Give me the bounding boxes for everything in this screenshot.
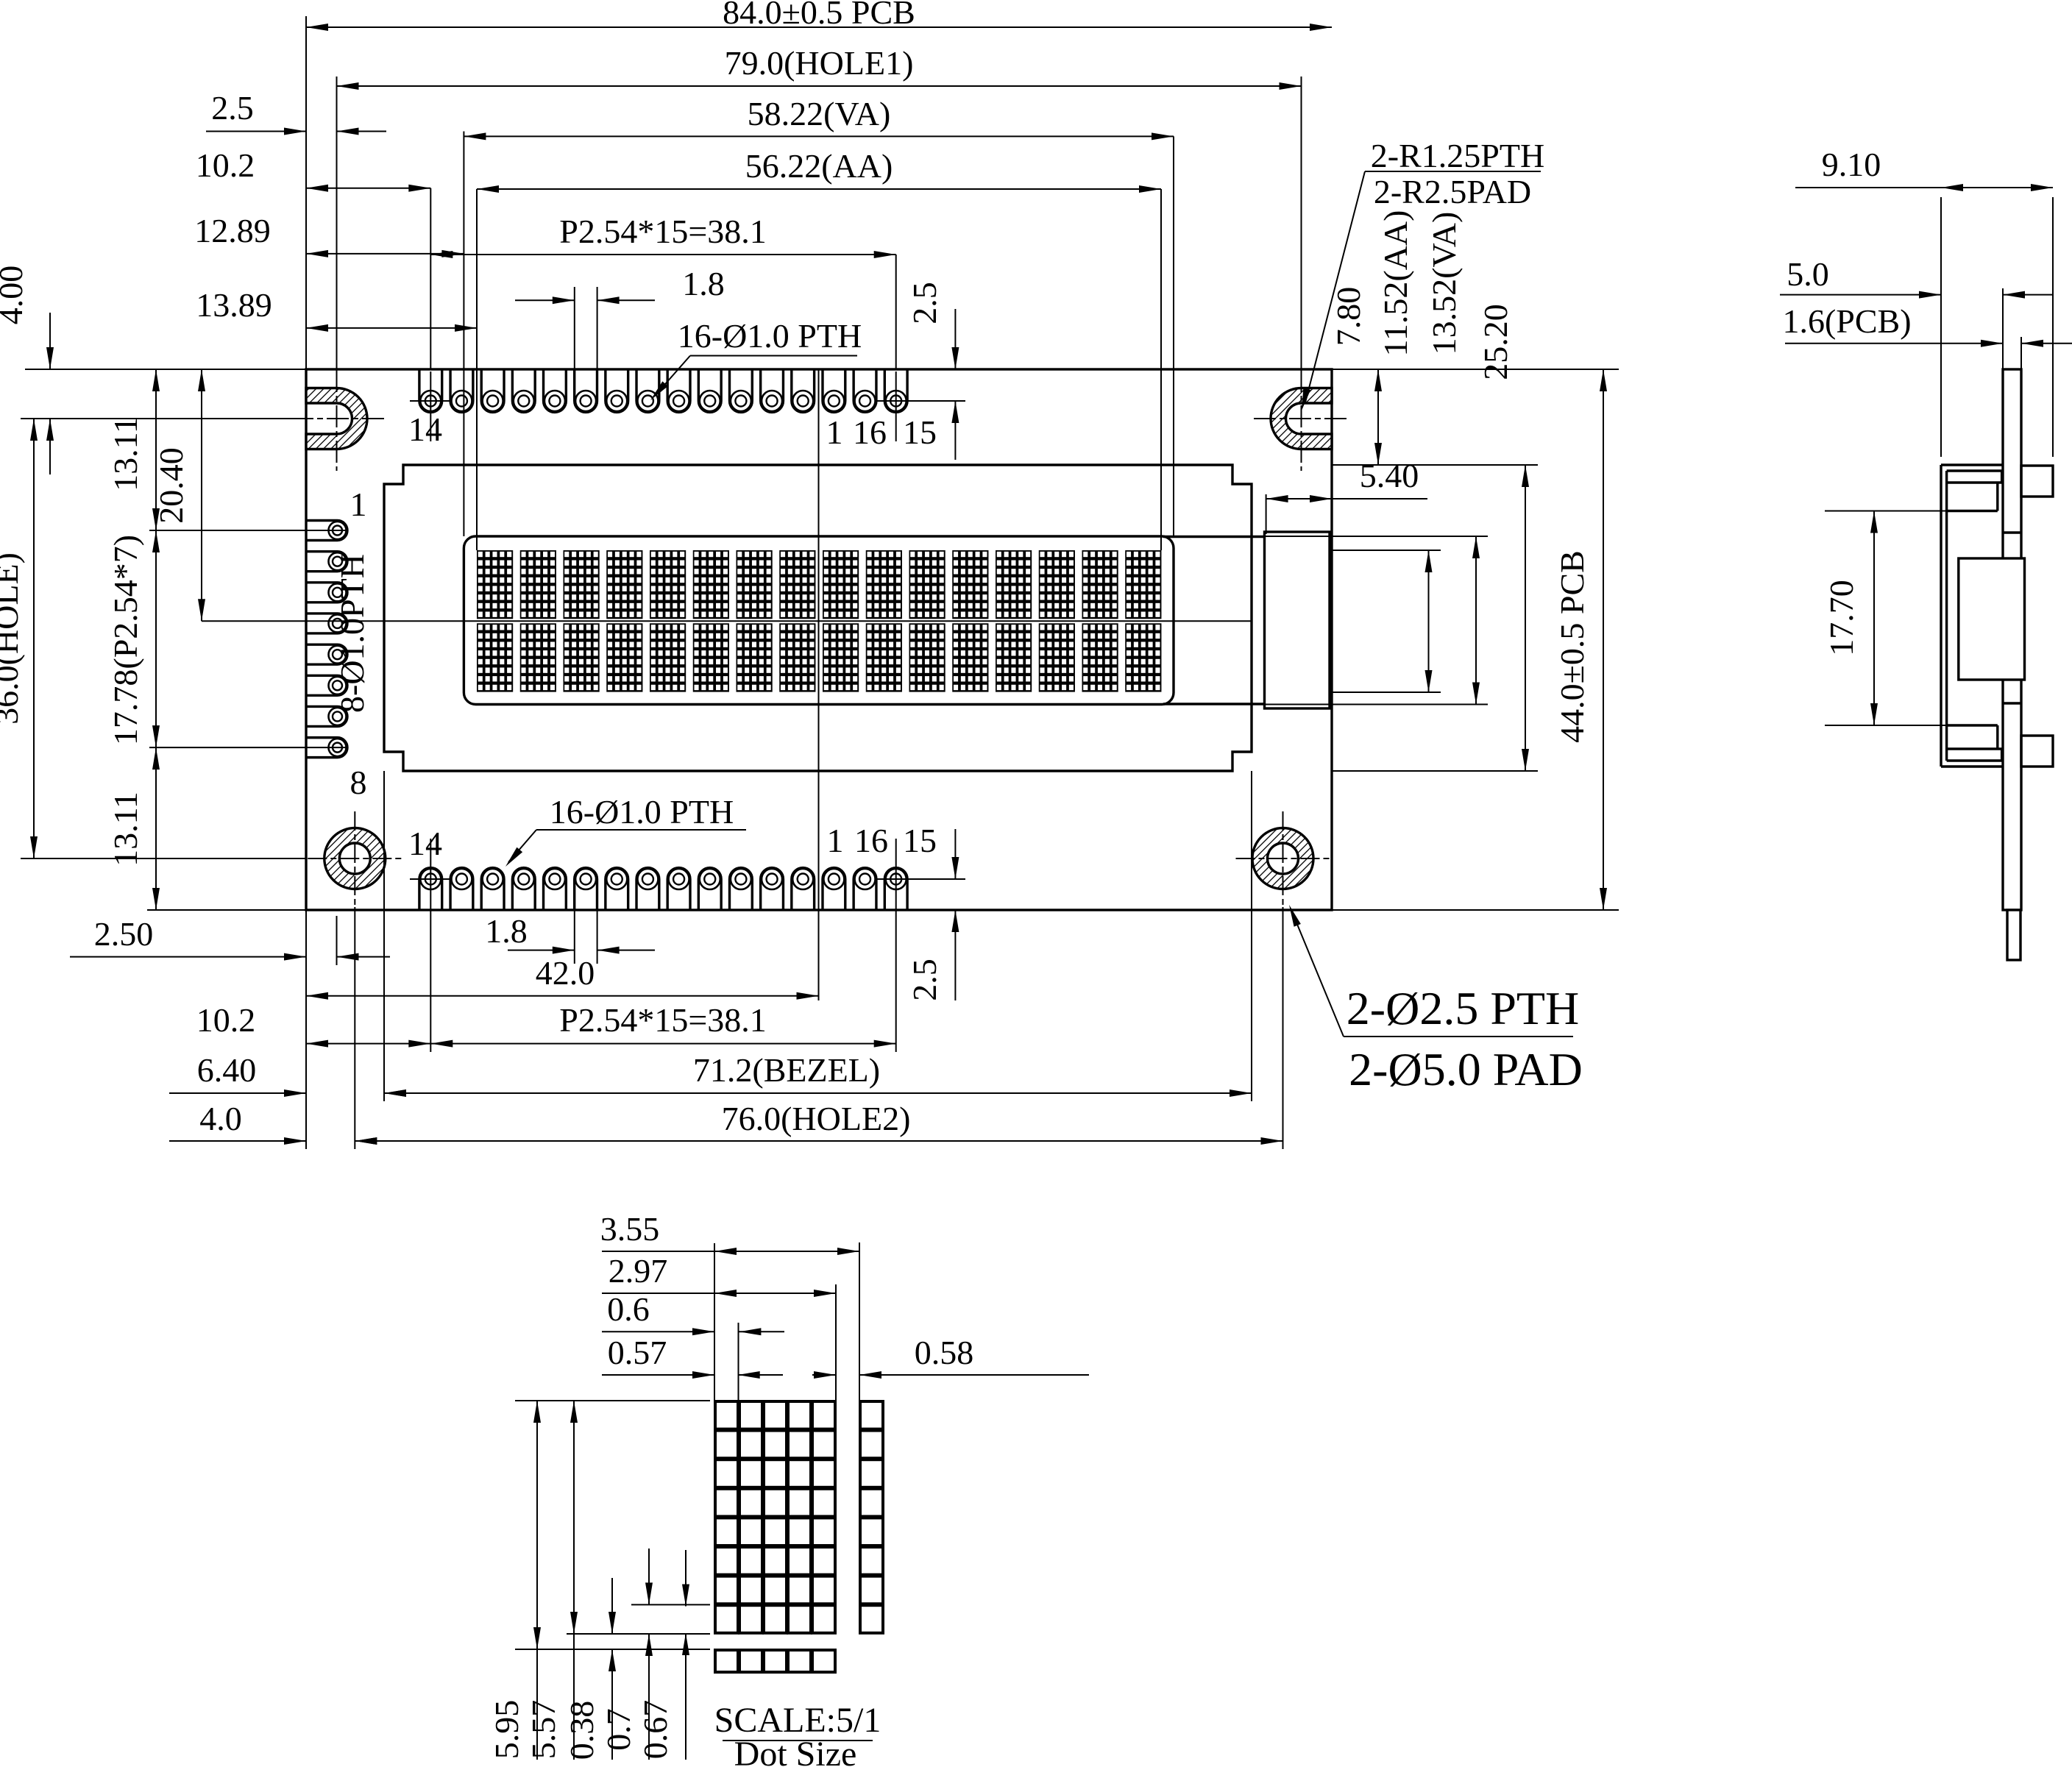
- ext pin15 row right bottom: [876, 878, 965, 880]
- dimension 1.8 top: [515, 299, 575, 301]
- svg-text:14: 14: [408, 410, 442, 448]
- dimension 0.38 detail: [611, 1578, 613, 1634]
- svg-text:13.11: 13.11: [107, 416, 144, 491]
- dimension 11.52 AA right: [1428, 550, 1430, 692]
- top pad pin 3: [730, 369, 753, 412]
- ext left pin8 row: [149, 747, 347, 748]
- side bezel tab bottom: [2021, 736, 2053, 767]
- dimension 58.22 VA: [464, 135, 1174, 137]
- ext hole2 center row left: [21, 858, 306, 859]
- LCD character cell row2 col7: [737, 623, 773, 691]
- svg-text:15: 15: [903, 822, 937, 859]
- svg-text:15: 15: [903, 413, 937, 451]
- dimension 84.0+-0.5 PCB: [306, 26, 1332, 28]
- detail dot r3 separated col: [860, 1460, 883, 1487]
- ext pin14 crosshair top: [430, 371, 431, 441]
- detail ext main right: [835, 1284, 837, 1401]
- dimension 2.5 vertical top right: [954, 309, 956, 369]
- LCD character cell row2 col12: [952, 623, 988, 691]
- mounting hole HOLE1 right (R2.5 pad half): [1271, 388, 1332, 449]
- mounting hole HOLE2 left (O5.0 pad) crosshair: [308, 858, 402, 859]
- bottom pad pin 12: [450, 868, 473, 910]
- svg-text:12.89: 12.89: [194, 212, 271, 249]
- detail dot r3c3: [764, 1460, 787, 1487]
- ext PCB top left: [25, 369, 306, 370]
- bottom pad pin 4: [698, 868, 721, 910]
- LCD character cell row2 col8: [779, 623, 815, 691]
- dimension P2.54*15=38.1 bottom: [430, 1043, 895, 1045]
- dimension 6.40 bottom: [169, 1092, 306, 1094]
- detail dot r5 separated col: [860, 1518, 883, 1546]
- svg-text:0.58: 0.58: [915, 1334, 974, 1371]
- svg-text:0.6: 0.6: [607, 1290, 650, 1328]
- top pad pin 9: [544, 369, 567, 412]
- dimension 4.00 left: [49, 313, 51, 369]
- pin14 bottom crosshair: [410, 878, 452, 880]
- detail dot r8c5: [812, 1605, 835, 1633]
- ext pad pin9 right edge bottom: [597, 910, 598, 964]
- side PCB slot top edge: [2003, 531, 2021, 533]
- detail dot r6c2: [739, 1547, 762, 1575]
- detail dot r1c3: [764, 1401, 787, 1429]
- detail dot r6c5: [812, 1547, 835, 1575]
- left pad pin 8: [306, 738, 347, 758]
- detail dot r1c1: [715, 1401, 738, 1429]
- svg-text:14: 14: [408, 825, 442, 862]
- LCD character cell row2 col6: [693, 623, 729, 691]
- svg-text:17.70: 17.70: [1823, 580, 1860, 656]
- detail dot r7c4: [788, 1576, 811, 1604]
- bottom pad pin 5: [667, 868, 690, 910]
- dimension 5.40 wing: [1266, 498, 1332, 499]
- detail dot r7c3: [764, 1576, 787, 1604]
- side view ext overall back: [2052, 197, 2054, 457]
- detail dot r8c2: [739, 1605, 762, 1633]
- detail dot r7c2: [739, 1576, 762, 1604]
- mounting hole HOLE2 left (O5.0 pad): [324, 828, 386, 889]
- side view ext bezel front: [1940, 197, 1942, 457]
- LCD character cell row2 col14: [1039, 623, 1075, 691]
- dimension 13.11 lower left: [155, 747, 157, 910]
- detail dot r7c5: [812, 1576, 835, 1604]
- dimension 13.52 VA right: [1475, 536, 1477, 705]
- detail dot r5c3: [764, 1518, 787, 1546]
- dimension 0.58 detail: [812, 1374, 836, 1376]
- ext pin14 bottom: [430, 839, 431, 1052]
- display centerline horizontal: [202, 620, 1252, 622]
- detail dot separated row c1: [715, 1650, 738, 1672]
- detail dot r8c4: [788, 1605, 811, 1633]
- detail dot r3c4: [788, 1460, 811, 1487]
- dimension 13.89: [306, 327, 477, 329]
- left pad pin 2: [306, 552, 347, 572]
- detail dot r1c4: [788, 1401, 811, 1429]
- dimension 5.57 detail: [573, 1401, 575, 1634]
- detail dot r2c3: [764, 1431, 787, 1459]
- dimension P2.54*15=38.1 top: [430, 254, 895, 255]
- detail dot r4c5: [812, 1489, 835, 1517]
- mounting hole HOLE2 right (O5.0 pad) crosshair: [1236, 858, 1330, 859]
- svg-text:2.5: 2.5: [211, 89, 254, 127]
- svg-text:71.2(BEZEL): 71.2(BEZEL): [693, 1051, 880, 1089]
- side bezel hook top: [2001, 471, 2003, 483]
- svg-text:2.5: 2.5: [906, 959, 943, 1001]
- svg-text:1: 1: [826, 413, 843, 451]
- dimension 7.80 right: [1377, 369, 1379, 465]
- dimension 4.0 bottom: [169, 1140, 306, 1142]
- detail dot r1c5: [812, 1401, 835, 1429]
- detail dot r8c1: [715, 1605, 738, 1633]
- svg-text:0.38: 0.38: [563, 1701, 600, 1760]
- dimension 0.6 detail: [602, 1331, 714, 1332]
- LCD character cell row2 col5: [650, 623, 686, 691]
- PCB outline front view: [306, 369, 1332, 910]
- detail dot r4c3: [764, 1489, 787, 1517]
- bottom pad pin 6: [636, 868, 659, 910]
- side bezel tab top: [2021, 466, 2053, 497]
- top pad pin 1: [823, 369, 845, 412]
- ext bezel right edge: [1251, 771, 1252, 1101]
- detail dot r4c1: [715, 1489, 738, 1517]
- svg-text:3.55: 3.55: [600, 1210, 660, 1248]
- bottom pad pin 14: [419, 868, 442, 910]
- detail dot separated row c3: [764, 1650, 787, 1672]
- LCD character cell row1 col16: [1125, 550, 1161, 619]
- svg-text:79.0(HOLE1): 79.0(HOLE1): [725, 44, 914, 82]
- detail dot r2 separated col: [860, 1431, 883, 1459]
- svg-text:16-Ø1.0 PTH: 16-Ø1.0 PTH: [678, 317, 862, 355]
- detail dot r3c5: [812, 1460, 835, 1487]
- dimension 20.40 left: [201, 369, 202, 621]
- ext PCB left edge above: [305, 16, 307, 369]
- svg-text:20.40: 20.40: [152, 447, 190, 524]
- detail dot r2c2: [739, 1431, 762, 1459]
- LCD character cell row1 col6: [693, 550, 729, 619]
- ext hole1 right center x: [1301, 77, 1302, 369]
- detail ext sep col left: [859, 1242, 860, 1401]
- ext pin15 top: [895, 255, 897, 369]
- LCD character cell row1 col14: [1039, 550, 1075, 619]
- ext PCB left edge below: [305, 910, 307, 1149]
- HOLE1 right crosshair: [1254, 418, 1347, 419]
- dimension 56.22 AA: [477, 188, 1161, 190]
- detail dot r6 separated col: [860, 1547, 883, 1575]
- LCD character cell row2 col1: [477, 623, 513, 691]
- svg-text:5.0: 5.0: [1787, 255, 1829, 293]
- bottom pad pin 16: [854, 868, 876, 910]
- LCD character cell row1 col9: [823, 550, 859, 619]
- svg-text:1.8: 1.8: [682, 265, 725, 302]
- bottom pad pin 8: [575, 868, 597, 910]
- dimension 10.2 top: [306, 188, 430, 189]
- svg-text:36.0(HOLE): 36.0(HOLE): [0, 552, 25, 725]
- top pad pin 2: [761, 369, 784, 412]
- ext pin15 row right top: [876, 400, 965, 402]
- ext pad pin9 left edge top: [574, 287, 575, 369]
- detail dot r3c1: [715, 1460, 738, 1487]
- bottom pad pin 1: [823, 868, 845, 910]
- svg-text:7.80: 7.80: [1330, 287, 1367, 346]
- LCD character cell row1 col1: [477, 550, 513, 619]
- LCD character cell row2 col15: [1082, 623, 1118, 691]
- side ext 17.70 top: [1825, 511, 1947, 512]
- svg-text:16: 16: [853, 413, 887, 451]
- dimension 9.10 side: [1941, 187, 2053, 188]
- LCD character cell row1 col10: [866, 550, 902, 619]
- detail dot r5c1: [715, 1518, 738, 1546]
- bottom pad pin 10: [512, 868, 535, 910]
- dimension 44.0+-0.5 PCB right: [1603, 369, 1604, 910]
- svg-text:5.95: 5.95: [488, 1700, 525, 1760]
- detail dot r5c5: [812, 1518, 835, 1546]
- dimension 5.0 side: [1780, 294, 1941, 296]
- top pad pin 12: [450, 369, 473, 412]
- detail dot r6c4: [788, 1547, 811, 1575]
- svg-text:58.22(VA): 58.22(VA): [748, 95, 891, 132]
- side PCB board bar: [2003, 369, 2021, 910]
- dimension 13.11 upper left: [155, 369, 157, 530]
- svg-text:1.6(PCB): 1.6(PCB): [1782, 302, 1911, 340]
- detail ext grid bottom: [567, 1633, 710, 1635]
- backlight boundary bottom: [1163, 703, 1265, 705]
- detail dot r8 separated col: [860, 1605, 883, 1633]
- svg-text:13.11: 13.11: [107, 792, 144, 867]
- detail dot r6c1: [715, 1547, 738, 1575]
- left pad pin 7: [306, 706, 347, 726]
- detail dot r2c4: [788, 1431, 811, 1459]
- detail ext main left: [714, 1243, 715, 1401]
- mounting hole HOLE1 left (R2.5 pad half): [306, 388, 367, 449]
- top pad pin 8: [575, 369, 597, 412]
- top pad pin 6: [636, 369, 659, 412]
- left pad pin 6: [306, 675, 347, 695]
- ext AA right: [1160, 189, 1162, 550]
- detail dot r7c1: [715, 1576, 738, 1604]
- svg-text:25.20: 25.20: [1477, 304, 1514, 380]
- side bezel inner top: [1947, 469, 2002, 472]
- detail dot r5c4: [788, 1518, 811, 1546]
- ext hole2 left center x: [354, 907, 355, 1149]
- dimension 3.55 detail: [714, 1251, 859, 1252]
- LCD character cell row2 col16: [1125, 623, 1161, 691]
- svg-text:17.78(P2.54*7): 17.78(P2.54*7): [107, 535, 144, 745]
- dimension 2.5 vertical bottom right: [954, 829, 956, 879]
- top pad pin 4: [698, 369, 721, 412]
- bottom pad pin 11: [481, 868, 504, 910]
- side view ext PCB back: [2020, 337, 2022, 369]
- ext hole1 center row left: [21, 418, 293, 419]
- svg-text:2-Ø5.0 PAD: 2-Ø5.0 PAD: [1349, 1043, 1583, 1095]
- detail ext first dot right: [738, 1323, 739, 1401]
- detail dot separated row c2: [739, 1650, 762, 1672]
- ext VA bottom right: [1265, 704, 1489, 705]
- top pad pin 14: [419, 369, 442, 412]
- detail ext row8 top: [631, 1604, 710, 1605]
- detail dot r2c1: [715, 1431, 738, 1459]
- dimension 2.97 detail: [714, 1293, 836, 1294]
- svg-text:2-Ø2.5 PTH: 2-Ø2.5 PTH: [1347, 982, 1579, 1034]
- left pad pin 3: [306, 583, 347, 602]
- ext hole1 left center x: [336, 77, 338, 369]
- svg-text:13.52(VA): 13.52(VA): [1425, 212, 1463, 355]
- LCD character cell row1 col12: [952, 550, 988, 619]
- top pad pin 5: [667, 369, 690, 412]
- svg-text:1: 1: [350, 486, 367, 523]
- dimension 79.0 HOLE1: [337, 85, 1302, 87]
- bottom pad pin 2: [761, 868, 784, 910]
- ext pad pin9 left edge bottom: [574, 910, 575, 964]
- LCD character cell row2 col4: [606, 623, 642, 691]
- svg-text:2.50: 2.50: [94, 915, 154, 953]
- detail dot r6c3: [764, 1547, 787, 1575]
- dimension 5.95 detail: [536, 1401, 538, 1649]
- svg-text:4.00: 4.00: [0, 266, 29, 325]
- top pad pin 16: [854, 369, 876, 412]
- svg-text:44.0±0.5 PCB: 44.0±0.5 PCB: [1553, 550, 1591, 743]
- LCD character cell row1 col11: [909, 550, 945, 619]
- svg-text:16: 16: [854, 822, 888, 859]
- svg-text:5.57: 5.57: [525, 1700, 562, 1760]
- ext wing left for 5.40: [1266, 494, 1267, 534]
- dimension 36.0 HOLE left: [33, 419, 35, 858]
- display centerline vertical: [818, 369, 820, 1000]
- top pad pin 10: [512, 369, 535, 412]
- svg-text:P2.54*15=38.1: P2.54*15=38.1: [559, 1001, 767, 1039]
- side view ext PCB front: [2002, 288, 2004, 369]
- dimension 76.0 HOLE2 bottom: [355, 1140, 1282, 1142]
- detail dot r3c2: [739, 1460, 762, 1487]
- ext PCB bottom right: [1332, 909, 1619, 911]
- side bezel top: [1941, 463, 2003, 466]
- detail dot r4 separated col: [860, 1489, 883, 1517]
- LCD character cell row1 col5: [650, 550, 686, 619]
- side bottom pin: [2007, 910, 2020, 960]
- detail dot r5c2: [739, 1518, 762, 1546]
- detail dot r1c2: [739, 1401, 762, 1429]
- detail dot r4c4: [788, 1489, 811, 1517]
- svg-text:Dot Size: Dot Size: [734, 1735, 857, 1767]
- dimension 17.70 side: [1873, 511, 1875, 726]
- bottom pad pin 3: [730, 868, 753, 910]
- LCD character cell row1 col15: [1082, 550, 1118, 619]
- pin15 top crosshair: [876, 400, 965, 402]
- svg-text:9.10: 9.10: [1822, 146, 1881, 183]
- svg-text:2-R2.5PAD: 2-R2.5PAD: [1374, 173, 1531, 210]
- ext pin14 top: [430, 188, 431, 369]
- ext hole1 left center x bottom: [336, 916, 338, 965]
- bezel outline: [384, 465, 1252, 771]
- top pad pin 11: [481, 369, 504, 412]
- ext PCB bottom left: [147, 909, 306, 911]
- ext left pin1 row: [149, 530, 347, 531]
- ext VA top right: [1265, 536, 1489, 537]
- side LCD glass block: [1959, 558, 2025, 680]
- ext pin15 crosshair top: [895, 371, 897, 441]
- bottom pad pin 15: [884, 868, 907, 910]
- detail dot r1 separated col: [860, 1401, 883, 1429]
- svg-text:0.7: 0.7: [600, 1708, 637, 1751]
- dimension 0.7 detail: [648, 1549, 650, 1604]
- dimension 0.57 detail: [602, 1374, 714, 1376]
- svg-text:1.8: 1.8: [485, 912, 528, 950]
- ext pad pin9 right edge top: [597, 287, 598, 369]
- LCD character cell row2 col13: [996, 623, 1032, 691]
- LCD character cell row2 col3: [564, 623, 600, 691]
- ext bezel left edge: [383, 771, 385, 1101]
- bottom pad pin 9: [544, 868, 567, 910]
- top pad pin 15: [884, 369, 907, 412]
- left pad pin 4: [306, 614, 347, 633]
- detail ext sep row top: [515, 1649, 710, 1650]
- svg-text:42.0: 42.0: [536, 954, 595, 992]
- detail dot r4c2: [739, 1489, 762, 1517]
- ext VA right: [1173, 136, 1174, 536]
- dimension 12.89: [306, 253, 464, 255]
- dimension 2.5 top left: [206, 131, 306, 132]
- HOLE1 left crosshair: [291, 418, 384, 419]
- left pad pin 1: [306, 521, 347, 541]
- svg-text:8: 8: [350, 764, 367, 801]
- LCD character cell row2 col9: [823, 623, 859, 691]
- LCD character cell row2 col11: [909, 623, 945, 691]
- backlight boundary top: [1163, 536, 1265, 538]
- svg-text:6.40: 6.40: [197, 1051, 257, 1089]
- LCD character cell row2 col10: [866, 623, 902, 691]
- bottom pad pin 1: [792, 868, 815, 910]
- svg-text:2.5: 2.5: [906, 282, 943, 324]
- LCD character cell row1 col2: [520, 550, 556, 619]
- ext PCB top right: [1332, 369, 1619, 370]
- svg-text:8-Ø1.0PTH: 8-Ø1.0PTH: [333, 554, 371, 713]
- top pad pin 7: [606, 369, 628, 412]
- ext bezel bottom right: [1332, 770, 1538, 772]
- ext AA top right: [1332, 550, 1441, 551]
- detail dot separated row c4: [788, 1650, 811, 1672]
- svg-text:13.89: 13.89: [196, 286, 272, 324]
- dimension 1.6 PCB side: [1785, 343, 2003, 344]
- svg-text:2-R1.25PTH: 2-R1.25PTH: [1371, 137, 1544, 174]
- top pad pin 1: [792, 369, 815, 412]
- svg-text:4.0: 4.0: [199, 1100, 242, 1137]
- svg-text:16-Ø1.0 PTH: 16-Ø1.0 PTH: [550, 793, 734, 831]
- LCD character cell row1 col8: [779, 550, 815, 619]
- dimension 10.2 bottom: [306, 1043, 430, 1045]
- dimension 0.67 detail: [685, 1550, 686, 1607]
- ext bezel top right: [1332, 464, 1538, 466]
- backlight wing tab: [1265, 532, 1330, 708]
- svg-text:10.2: 10.2: [196, 1001, 256, 1039]
- pin14 top crosshair: [410, 400, 452, 402]
- ext hole2 right center x: [1282, 907, 1284, 1149]
- svg-text:56.22(AA): 56.22(AA): [745, 147, 893, 185]
- ext pin15 bottom: [895, 839, 897, 1052]
- side bezel bottom: [1941, 765, 2003, 767]
- side bezel inner front: [1945, 471, 1948, 761]
- display VA window: [464, 536, 1174, 705]
- ext VA left: [463, 132, 464, 537]
- dimension 25.20 right: [1525, 465, 1526, 771]
- side bezel inner bottom: [1947, 759, 2002, 761]
- svg-text:84.0±0.5 PCB: 84.0±0.5 PCB: [723, 0, 915, 31]
- bottom pad pin 7: [606, 868, 628, 910]
- pin15 bottom crosshair: [876, 878, 965, 880]
- LCD character cell row1 col4: [606, 550, 642, 619]
- dimension 71.2 BEZEL bottom: [384, 1092, 1252, 1094]
- detail dot r2c5: [812, 1431, 835, 1459]
- detail dot r8c3: [764, 1605, 787, 1633]
- svg-text:0.67: 0.67: [636, 1700, 674, 1760]
- side bezel front face: [1940, 465, 1942, 767]
